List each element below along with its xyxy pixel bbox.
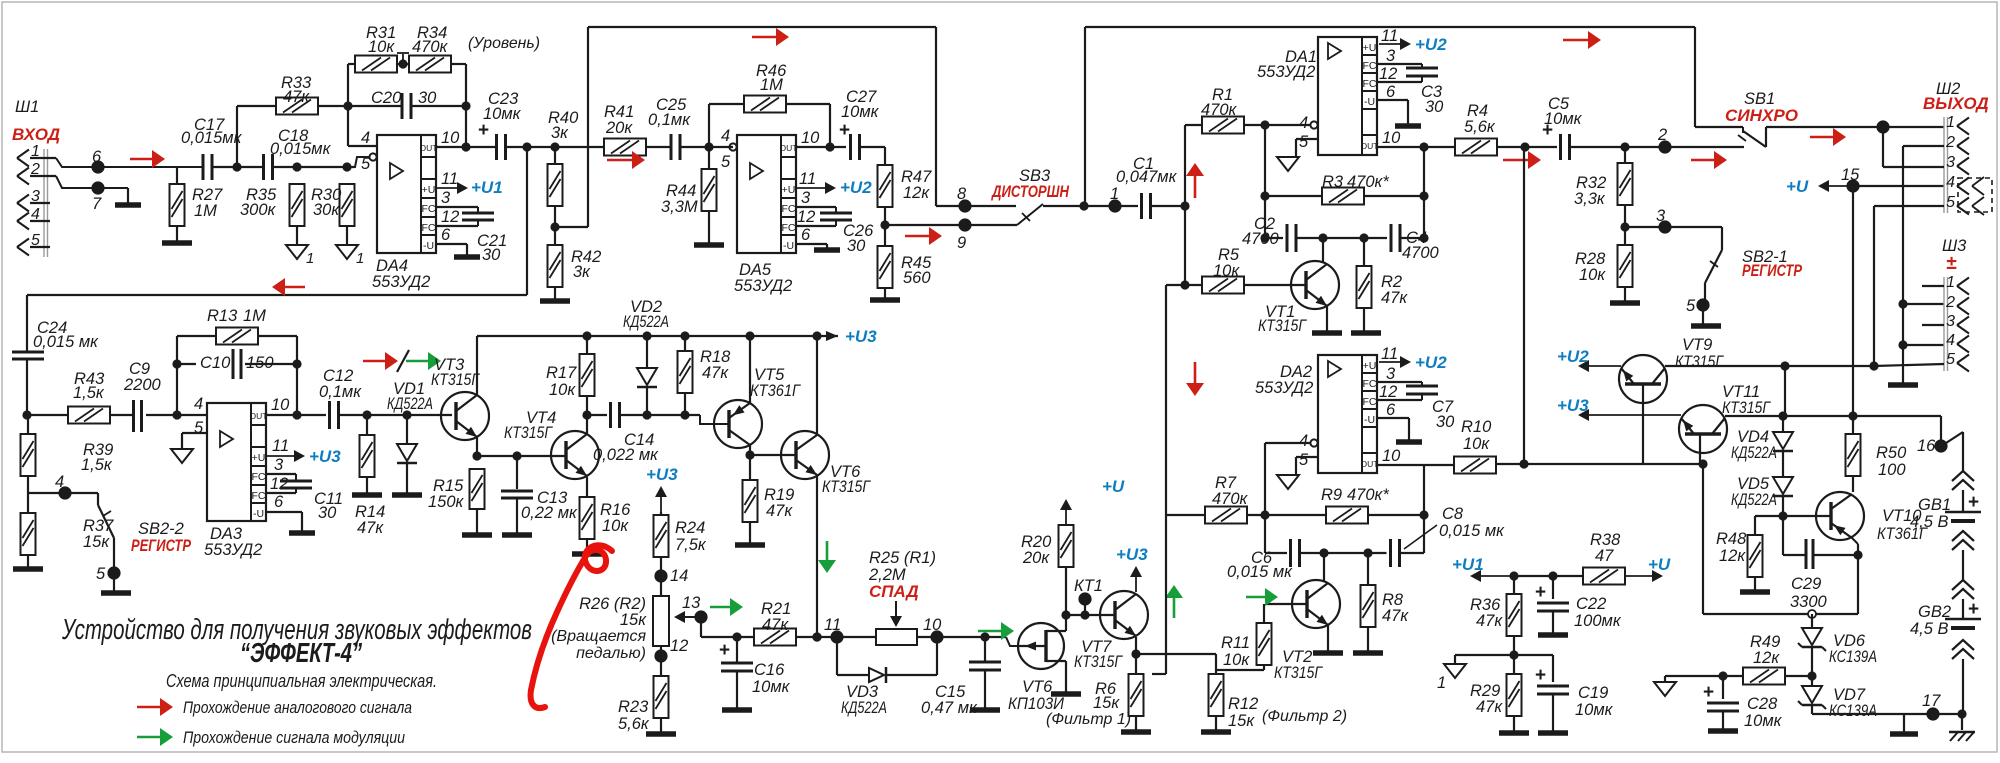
svg-text:3300: 3300 <box>1790 593 1828 611</box>
svg-text:5,6к: 5,6к <box>618 715 650 733</box>
svg-text:ДИСТОРШН: ДИСТОРШН <box>990 182 1069 201</box>
svg-text:10мк: 10мк <box>841 103 880 121</box>
svg-text:C10: C10 <box>200 354 231 372</box>
svg-text:C28: C28 <box>1747 695 1778 713</box>
svg-text:+U2: +U2 <box>1415 353 1447 372</box>
svg-text:13: 13 <box>682 594 701 612</box>
svg-text:+: + <box>719 640 730 661</box>
svg-text:+U3: +U3 <box>845 327 877 346</box>
svg-text:5: 5 <box>1299 451 1309 469</box>
svg-text:30: 30 <box>318 504 337 522</box>
svg-text:ВЫХОД: ВЫХОД <box>1923 94 1989 113</box>
svg-text:16: 16 <box>1917 437 1936 455</box>
svg-text:5: 5 <box>96 565 106 583</box>
svg-text:3: 3 <box>1946 313 1955 330</box>
svg-text:10мк: 10мк <box>1544 110 1583 128</box>
svg-text:470к*: 470к* <box>1347 173 1389 191</box>
svg-text:-U: -U <box>253 508 264 520</box>
svg-text:0,022 мк: 0,022 мк <box>593 446 659 464</box>
svg-text:11: 11 <box>1381 27 1398 45</box>
svg-text:КС139А: КС139А <box>1829 648 1877 666</box>
svg-text:553УД2: 553УД2 <box>204 541 262 559</box>
svg-text:3к: 3к <box>573 263 591 281</box>
svg-text:12: 12 <box>1379 383 1397 401</box>
svg-text:47к: 47к <box>283 88 310 106</box>
svg-text:4,5 В: 4,5 В <box>1910 513 1949 531</box>
svg-text:0,1мк: 0,1мк <box>319 383 362 401</box>
svg-text:+U3: +U3 <box>309 447 341 466</box>
svg-text:12к: 12к <box>903 184 930 202</box>
svg-text:4: 4 <box>721 127 730 145</box>
svg-text:КД522А: КД522А <box>841 699 887 717</box>
svg-text:FC: FC <box>782 222 796 234</box>
svg-text:470к: 470к <box>1201 101 1238 119</box>
svg-text:4: 4 <box>55 473 64 491</box>
svg-text:4,5 В: 4,5 В <box>1910 620 1949 638</box>
svg-text:4: 4 <box>1946 332 1955 349</box>
svg-text:КТ1: КТ1 <box>1074 577 1103 595</box>
svg-text:15: 15 <box>1841 166 1860 184</box>
svg-text:5: 5 <box>1299 133 1309 151</box>
svg-text:-U: -U <box>423 240 434 252</box>
svg-text:КТ315Г: КТ315Г <box>1722 399 1771 417</box>
svg-text:СПАД: СПАД <box>869 582 919 601</box>
svg-text:47к: 47к <box>766 502 793 520</box>
svg-text:553УД2: 553УД2 <box>372 273 430 291</box>
svg-text:КД522А: КД522А <box>1731 444 1777 462</box>
svg-text:R10: R10 <box>1461 418 1492 436</box>
svg-text:4700: 4700 <box>1402 244 1440 262</box>
svg-text:15к: 15к <box>1093 694 1120 712</box>
svg-text:+U: +U <box>422 184 436 196</box>
svg-text:R17: R17 <box>546 364 577 382</box>
svg-text:C20: C20 <box>371 89 402 107</box>
svg-text:470к: 470к <box>412 38 449 56</box>
svg-text:КС139А: КС139А <box>1829 702 1877 720</box>
svg-text:±: ± <box>1946 253 1957 274</box>
svg-text:+: + <box>1968 599 1979 620</box>
svg-text:СИНХРО: СИНХРО <box>1725 106 1798 125</box>
svg-text:15к: 15к <box>620 611 647 629</box>
svg-text:7: 7 <box>92 195 102 213</box>
svg-text:10: 10 <box>441 129 460 147</box>
svg-text:R12: R12 <box>1228 695 1258 713</box>
svg-text:17: 17 <box>1922 692 1941 710</box>
svg-text:10к: 10к <box>549 381 576 399</box>
svg-text:VT6: VT6 <box>1022 678 1053 696</box>
svg-text:10к: 10к <box>1579 266 1606 284</box>
svg-text:Схема принципиальная электриче: Схема принципиальная электрическая. <box>166 671 437 691</box>
svg-text:РЕГИСТР: РЕГИСТР <box>1742 261 1802 280</box>
svg-text:20к: 20к <box>1022 549 1050 567</box>
svg-text:11: 11 <box>272 437 289 455</box>
svg-text:+: + <box>1703 682 1714 703</box>
svg-text:R23: R23 <box>618 698 649 716</box>
svg-text:2: 2 <box>1945 294 1955 311</box>
svg-text:+: + <box>1535 582 1546 603</box>
svg-text:470к*: 470к* <box>1347 486 1389 504</box>
svg-text:КТ315Г: КТ315Г <box>504 424 553 442</box>
svg-text:+U: +U <box>782 184 796 196</box>
svg-text:47к: 47к <box>1476 698 1503 716</box>
svg-text:C19: C19 <box>1578 684 1608 702</box>
svg-text:РЕГИСТР: РЕГИСТР <box>131 536 191 555</box>
svg-text:1,5к: 1,5к <box>81 456 113 474</box>
svg-text:FC: FC <box>782 203 796 215</box>
svg-text:R13: R13 <box>207 307 238 325</box>
svg-text:R48: R48 <box>1716 530 1747 548</box>
svg-text:6: 6 <box>92 148 102 166</box>
svg-text:30: 30 <box>1425 98 1444 116</box>
svg-text:12: 12 <box>670 637 688 655</box>
svg-text:5: 5 <box>721 153 731 171</box>
svg-text:0,1мк: 0,1мк <box>648 111 691 129</box>
svg-text:4: 4 <box>194 395 203 413</box>
svg-text:10к: 10к <box>602 517 629 535</box>
svg-text:47к: 47к <box>702 364 729 382</box>
svg-text:5: 5 <box>361 155 371 173</box>
svg-text:ВХОД: ВХОД <box>12 125 60 144</box>
svg-text:10мк: 10мк <box>1575 701 1614 719</box>
svg-text:6: 6 <box>274 493 284 511</box>
svg-text:+: + <box>1968 492 1979 513</box>
svg-text:0,015мк: 0,015мк <box>181 129 243 147</box>
svg-text:8: 8 <box>957 185 967 203</box>
svg-text:12: 12 <box>441 208 459 226</box>
svg-text:1М: 1М <box>760 76 783 94</box>
svg-text:GB1: GB1 <box>1918 496 1951 514</box>
svg-text:C22: C22 <box>1576 595 1606 613</box>
svg-text:5: 5 <box>1946 351 1955 368</box>
svg-text:4: 4 <box>1299 114 1308 132</box>
svg-text:Прохождение аналогового сигнал: Прохождение аналогового сигнала <box>183 698 412 717</box>
svg-text:0,015 мк: 0,015 мк <box>1439 522 1505 540</box>
svg-text:+: + <box>839 120 850 141</box>
svg-text:(Уровень): (Уровень) <box>468 35 540 52</box>
svg-text:+: + <box>478 120 489 141</box>
svg-text:2200: 2200 <box>123 376 162 394</box>
svg-text:15к: 15к <box>83 533 110 551</box>
svg-text:3: 3 <box>1656 207 1666 225</box>
svg-text:+U3: +U3 <box>1116 545 1148 564</box>
svg-text:КД522А: КД522А <box>1731 491 1777 509</box>
svg-text:0,047мк: 0,047мк <box>1116 168 1178 186</box>
svg-text:10: 10 <box>271 396 290 414</box>
svg-text:11: 11 <box>799 170 816 188</box>
svg-text:OUT: OUT <box>780 143 798 153</box>
svg-text:“ЭФФЕКТ-4”: “ЭФФЕКТ-4” <box>240 637 362 668</box>
svg-text:30к: 30к <box>313 201 340 219</box>
svg-text:10мк: 10мк <box>752 678 791 696</box>
svg-text:(Фильтр 2): (Фильтр 2) <box>1262 708 1347 725</box>
svg-text:7,5к: 7,5к <box>675 536 707 554</box>
svg-text:FC: FC <box>252 490 266 502</box>
svg-text:+U: +U <box>1648 555 1671 574</box>
svg-text:OUT: OUT <box>1361 141 1379 151</box>
svg-text:10к: 10к <box>1213 262 1240 280</box>
svg-text:+U: +U <box>1363 360 1377 372</box>
svg-text:100мк: 100мк <box>1574 612 1622 630</box>
svg-text:6: 6 <box>441 226 451 244</box>
svg-text:R9: R9 <box>1321 486 1342 504</box>
svg-text:1М: 1М <box>243 307 266 325</box>
svg-text:10: 10 <box>923 616 942 634</box>
svg-text:+U: +U <box>1786 177 1809 196</box>
svg-text:11: 11 <box>824 616 841 634</box>
svg-text:10к: 10к <box>1223 651 1250 669</box>
svg-text:КТ315Г: КТ315Г <box>1258 317 1307 335</box>
svg-text:6: 6 <box>801 226 811 244</box>
svg-text:R24: R24 <box>675 519 705 537</box>
svg-text:47к: 47к <box>357 519 384 537</box>
svg-text:КТ315Г: КТ315Г <box>822 478 871 496</box>
svg-text:47: 47 <box>1595 547 1614 565</box>
svg-text:10мк: 10мк <box>483 105 522 123</box>
svg-text:FC: FC <box>1363 78 1377 90</box>
svg-text:+U2: +U2 <box>1557 347 1589 366</box>
svg-text:+U2: +U2 <box>840 178 872 197</box>
svg-text:4: 4 <box>1946 174 1955 191</box>
svg-text:+: + <box>1535 665 1546 686</box>
svg-text:C16: C16 <box>754 661 785 679</box>
svg-text:(Фильтр 1): (Фильтр 1) <box>1046 711 1131 728</box>
svg-text:30: 30 <box>847 237 866 255</box>
svg-text:OUT: OUT <box>1361 459 1379 469</box>
svg-text:0,015 мк: 0,015 мк <box>33 333 99 351</box>
svg-text:+U2: +U2 <box>1415 35 1447 54</box>
svg-text:R50: R50 <box>1876 444 1907 462</box>
svg-text:Прохождение сигнала модуляции: Прохождение сигнала модуляции <box>183 728 405 747</box>
svg-text:1: 1 <box>1437 674 1446 692</box>
svg-text:КТ361Г: КТ361Г <box>750 382 801 400</box>
svg-text:+U: +U <box>1102 477 1125 496</box>
svg-text:3: 3 <box>801 189 811 207</box>
svg-text:12: 12 <box>270 475 288 493</box>
svg-text:300к: 300к <box>240 201 277 219</box>
svg-text:1: 1 <box>1946 114 1955 131</box>
svg-text:5,6к: 5,6к <box>1464 118 1496 136</box>
svg-text:КТ315Г: КТ315Г <box>1675 353 1724 371</box>
svg-text:11: 11 <box>441 170 458 188</box>
svg-text:560: 560 <box>903 269 931 287</box>
svg-text:Ш1: Ш1 <box>15 98 39 116</box>
svg-text:6: 6 <box>1386 401 1396 419</box>
svg-text:FC: FC <box>1363 396 1377 408</box>
svg-text:6: 6 <box>1386 83 1396 101</box>
svg-text:10: 10 <box>801 129 820 147</box>
svg-text:+U: +U <box>252 452 266 464</box>
svg-text:11: 11 <box>1381 345 1398 363</box>
svg-text:4: 4 <box>1299 432 1308 450</box>
svg-text:2: 2 <box>1657 126 1667 144</box>
svg-text:-U: -U <box>783 240 794 252</box>
svg-text:12к: 12к <box>1719 547 1746 565</box>
svg-text:1: 1 <box>1946 274 1955 291</box>
svg-text:+U3: +U3 <box>646 465 678 484</box>
svg-text:553УД2: 553УД2 <box>734 277 792 295</box>
svg-text:КТ315Г: КТ315Г <box>431 371 480 389</box>
svg-text:КТ315Г: КТ315Г <box>1274 664 1323 682</box>
svg-text:2: 2 <box>1945 134 1955 151</box>
svg-text:0,47 мк: 0,47 мк <box>921 699 978 717</box>
svg-text:3: 3 <box>1386 365 1396 383</box>
svg-text:+U: +U <box>1363 42 1377 54</box>
svg-text:10мк: 10мк <box>1744 712 1783 730</box>
svg-text:14: 14 <box>670 567 688 585</box>
svg-text:FC: FC <box>252 471 266 483</box>
svg-text:C29: C29 <box>1791 575 1821 593</box>
svg-text:FC: FC <box>1363 378 1377 390</box>
svg-text:5: 5 <box>194 419 204 437</box>
svg-text:4700: 4700 <box>1242 230 1280 248</box>
svg-text:КД522А: КД522А <box>387 395 433 413</box>
svg-text:+U3: +U3 <box>1557 396 1589 415</box>
svg-text:47к: 47к <box>1381 289 1408 307</box>
svg-text:C8: C8 <box>1442 505 1464 523</box>
svg-text:10: 10 <box>1382 447 1401 465</box>
svg-text:1: 1 <box>306 250 314 267</box>
svg-text:R3: R3 <box>1322 173 1344 191</box>
svg-text:20к: 20к <box>605 119 633 137</box>
svg-text:10к: 10к <box>1463 435 1490 453</box>
svg-text:+U1: +U1 <box>471 178 503 197</box>
svg-text:10к: 10к <box>368 38 395 56</box>
svg-text:(Вращается: (Вращается <box>551 628 646 645</box>
svg-text:3: 3 <box>274 456 284 474</box>
svg-text:GB2: GB2 <box>1918 603 1951 621</box>
svg-text:4: 4 <box>361 129 370 147</box>
svg-text:150к: 150к <box>428 493 465 511</box>
svg-text:VT9: VT9 <box>1682 336 1712 354</box>
svg-text:12: 12 <box>1379 65 1397 83</box>
svg-text:3,3М: 3,3М <box>661 198 698 216</box>
svg-text:9: 9 <box>957 234 966 252</box>
svg-text:100: 100 <box>1878 461 1906 479</box>
svg-text:10: 10 <box>1382 129 1401 147</box>
svg-text:КД522А: КД522А <box>623 313 669 331</box>
svg-text:15к: 15к <box>1228 712 1255 730</box>
svg-text:3: 3 <box>1386 47 1396 65</box>
svg-text:1: 1 <box>1110 185 1119 203</box>
svg-text:30: 30 <box>1436 413 1455 431</box>
svg-text:5: 5 <box>1686 297 1696 315</box>
svg-text:+U1: +U1 <box>1452 555 1484 574</box>
svg-text:47к: 47к <box>1382 607 1409 625</box>
svg-text:0,22 мк: 0,22 мк <box>521 504 578 522</box>
svg-text:553УД2: 553УД2 <box>1255 379 1313 397</box>
svg-text:OUT: OUT <box>250 411 268 421</box>
svg-text:47к: 47к <box>762 616 789 634</box>
svg-text:-U: -U <box>1364 96 1375 108</box>
svg-text:12к: 12к <box>1753 649 1780 667</box>
svg-text:12: 12 <box>797 208 815 226</box>
svg-text:1,5к: 1,5к <box>73 384 105 402</box>
svg-text:553УД2: 553УД2 <box>1257 63 1315 81</box>
svg-text:FC: FC <box>1363 60 1377 72</box>
svg-text:1: 1 <box>356 250 364 267</box>
svg-text:3: 3 <box>441 189 451 207</box>
svg-text:470к: 470к <box>1212 490 1249 508</box>
svg-text:R25 (R1): R25 (R1) <box>869 549 936 567</box>
svg-text:47к: 47к <box>1476 612 1503 630</box>
svg-text:3,3к: 3,3к <box>1574 190 1606 208</box>
svg-text:-U: -U <box>1364 414 1375 426</box>
svg-text:педалью): педалью) <box>576 645 646 662</box>
svg-text:FC: FC <box>422 203 436 215</box>
svg-text:30: 30 <box>482 246 501 264</box>
svg-text:1М: 1М <box>194 202 217 220</box>
svg-text:3: 3 <box>1946 154 1955 171</box>
svg-text:5: 5 <box>1946 194 1955 211</box>
svg-text:0,015мк: 0,015мк <box>270 140 332 158</box>
svg-text:R11: R11 <box>1221 634 1250 652</box>
svg-text:FC: FC <box>422 222 436 234</box>
svg-text:КТ315Г: КТ315Г <box>1074 653 1123 671</box>
svg-text:OUT: OUT <box>420 143 438 153</box>
svg-text:0,015 мк: 0,015 мк <box>1227 563 1293 581</box>
svg-text:3к: 3к <box>551 124 569 142</box>
svg-text:30: 30 <box>418 89 437 107</box>
